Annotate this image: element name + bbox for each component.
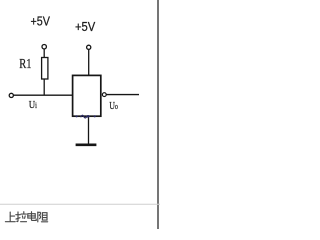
- svg-text:Uo: Uo: [109, 100, 118, 112]
- svg-text:R1: R1: [19, 57, 31, 72]
- svg-text:Ui: Ui: [29, 99, 38, 111]
- svg-text:+5V: +5V: [31, 14, 51, 29]
- svg-text:+5V: +5V: [75, 19, 96, 34]
